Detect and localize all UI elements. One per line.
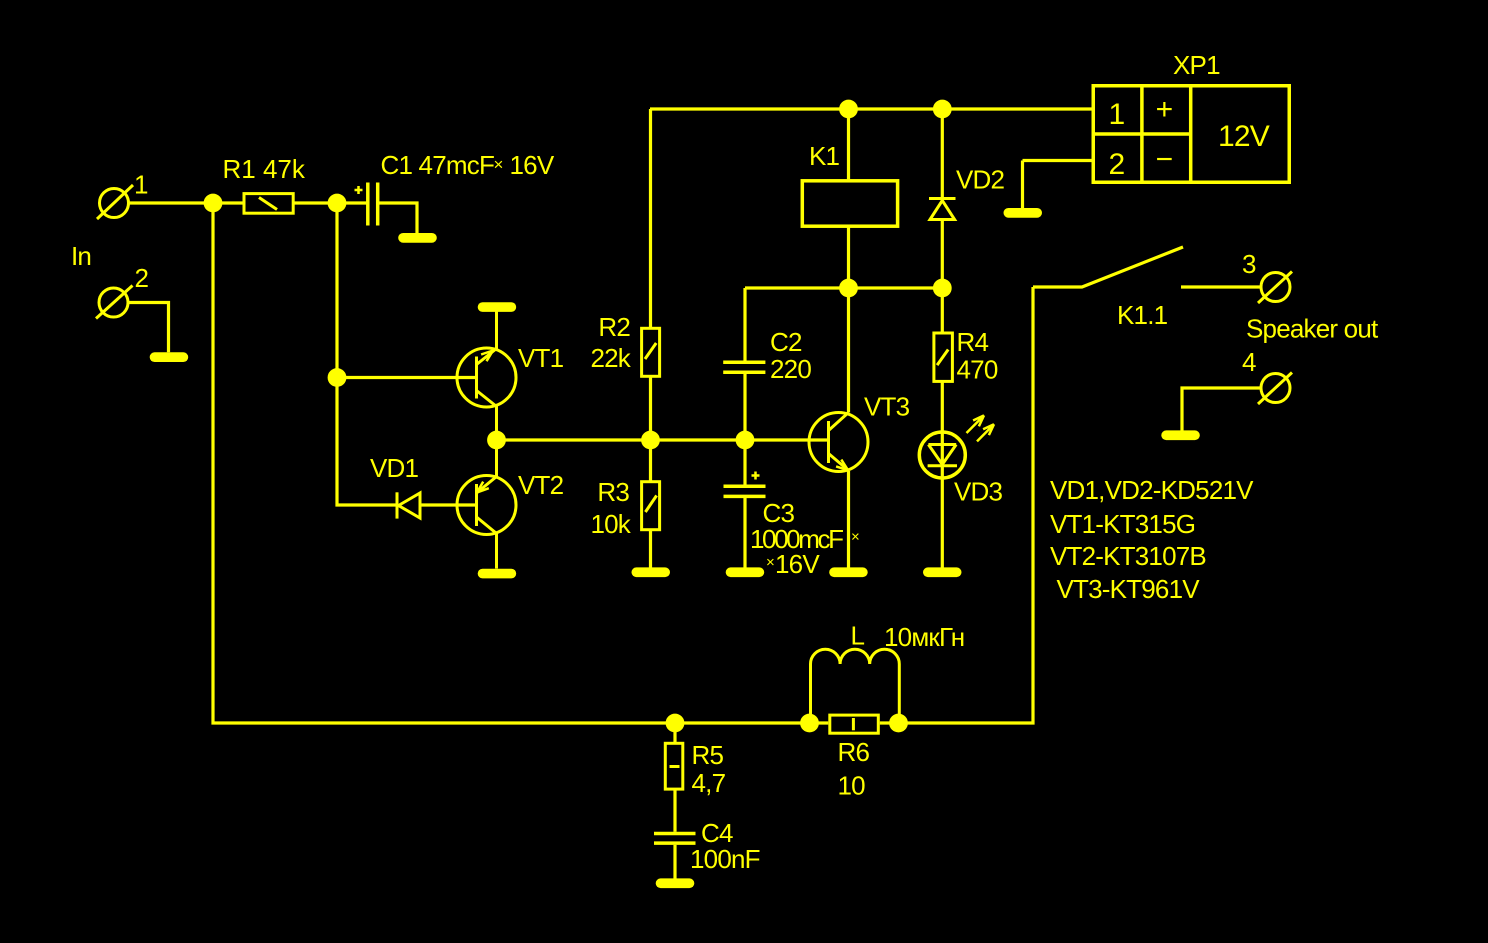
svg-text:K1: K1 [809,141,840,171]
svg-text:VT1: VT1 [518,343,564,373]
svg-text:K1.1: K1.1 [1117,300,1168,330]
svg-text:VT3-KT961V: VT3-KT961V [1057,574,1201,604]
svg-text:4: 4 [1242,347,1256,377]
svg-text:C1 47mcF: C1 47mcF [381,150,495,180]
svg-text:VD1: VD1 [370,453,419,483]
svg-text:VT3: VT3 [864,392,910,422]
svg-text:L: L [851,621,865,651]
svg-text:VD2: VD2 [956,165,1005,195]
svg-text:×: × [766,554,774,571]
svg-text:10k: 10k [590,509,631,539]
svg-text:220: 220 [770,354,811,384]
svg-text:16V: 16V [775,549,820,579]
svg-text:3: 3 [1242,249,1256,279]
svg-text:16V: 16V [510,150,555,180]
svg-text:10: 10 [838,771,866,801]
svg-text:R4: R4 [957,327,989,357]
svg-text:470: 470 [957,355,998,385]
svg-text:1: 1 [134,170,148,200]
svg-text:1: 1 [1109,98,1125,131]
svg-text:22k: 22k [590,343,631,373]
svg-text:100nF: 100nF [690,844,760,874]
svg-text:R6: R6 [838,737,870,767]
svg-text:+: + [1156,93,1173,126]
svg-text:VT1-KT315G: VT1-KT315G [1050,509,1195,539]
svg-text:−: − [1156,143,1173,176]
svg-text:12V: 12V [1218,120,1270,153]
svg-text:XP1: XP1 [1173,50,1220,80]
svg-text:R5: R5 [692,740,724,770]
svg-text:2: 2 [135,263,149,293]
svg-text:2: 2 [1109,148,1125,181]
svg-text:4,7: 4,7 [692,768,726,798]
svg-text:R2: R2 [598,312,630,342]
svg-text:R1 47k: R1 47k [223,154,306,184]
svg-text:VT2-KT3107B: VT2-KT3107B [1050,541,1206,571]
svg-text:10мкГн: 10мкГн [884,622,964,652]
svg-text:×: × [851,529,859,546]
svg-text:C2: C2 [770,327,802,357]
svg-text:VD1,VD2-KD521V: VD1,VD2-KD521V [1050,475,1254,505]
svg-text:×: × [494,155,503,174]
svg-text:Speaker out: Speaker out [1246,314,1379,344]
svg-text:VT2: VT2 [518,470,564,500]
svg-text:VD3: VD3 [954,477,1003,507]
svg-text:In: In [71,241,91,271]
svg-text:R3: R3 [597,477,629,507]
